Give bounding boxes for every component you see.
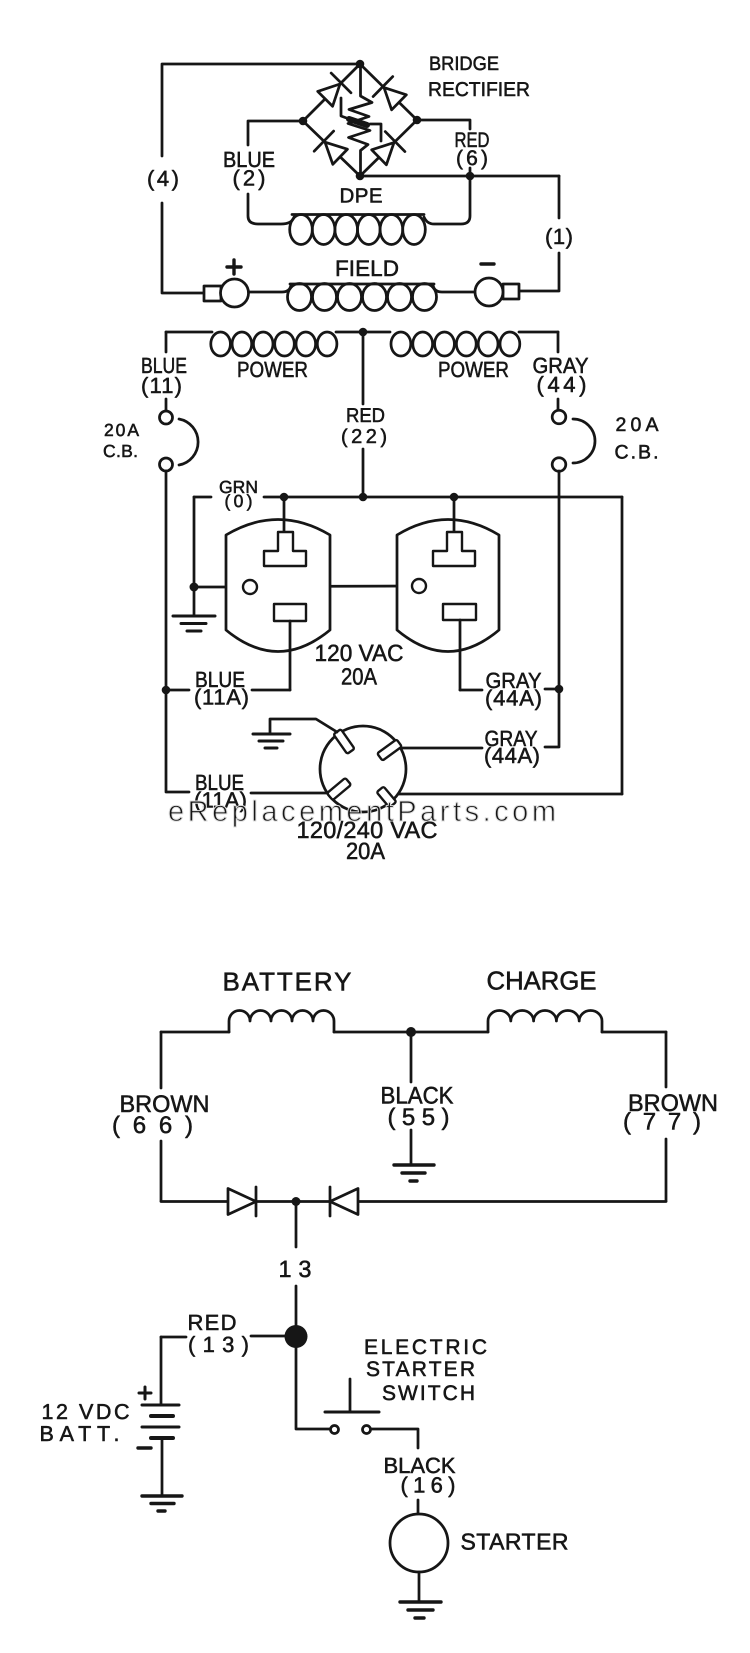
starter switch S1 contacts	[331, 1426, 371, 1434]
wire: right side BROWN(77)	[665, 1032, 668, 1201]
wire: neutral link to receptacle pins	[194, 586, 412, 587]
starter switch plunger	[325, 1379, 379, 1412]
diode D6 (right, cathode left)	[330, 1187, 358, 1216]
label + (field positive)	[227, 260, 241, 274]
node: bridge bottom junction	[356, 172, 365, 181]
label BRIDGE RECTIFIER	[428, 53, 530, 101]
svg-text:12 VDC: 12 VDC	[42, 1400, 130, 1424]
label GRAY (44)	[533, 353, 589, 397]
circuit breaker CB2 (right 20A)	[552, 410, 595, 471]
svg-text:120 VAC: 120 VAC	[315, 640, 404, 666]
wire: bottom rail with diodes	[161, 1200, 666, 1203]
wire: left breaker down to BLUE(11A) node	[165, 471, 168, 690]
receptacle outlet body (left 120VAC)	[226, 520, 330, 652]
wire BLUE(11): power left end down to breaker	[165, 332, 168, 410]
svg-text:STARTER: STARTER	[461, 1529, 569, 1555]
wire: DPE right end riser	[424, 176, 470, 224]
label BROWN (66)	[112, 1091, 210, 1139]
wire (1) riser to FIELD - terminal	[520, 176, 559, 291]
right outlet hot slot	[443, 604, 476, 620]
inductor POWER (left winding)	[166, 332, 390, 356]
node: bus junction left outlet	[280, 493, 289, 502]
svg-text:FIELD: FIELD	[335, 256, 399, 281]
battery BT1 12VDC	[142, 1405, 179, 1438]
node: GRAY(44A) junction	[555, 685, 564, 694]
node: POWER center tap	[359, 328, 368, 337]
ground symbol (receptacle GRN)	[173, 587, 215, 631]
node: BLACK(55) center tap	[406, 1027, 416, 1037]
twist-lock slot (bottom-right)	[377, 786, 397, 807]
label RED (6)	[455, 129, 490, 170]
wire: GRN bracket down to ground	[193, 497, 196, 587]
ground symbol (BLACK 55)	[394, 1165, 434, 1181]
node: bus junction right outlet	[450, 493, 459, 502]
svg-text:20A: 20A	[346, 838, 385, 864]
wire: GRAY(44A) drop to twist-lock	[402, 689, 559, 748]
wire: battery negative to ground	[161, 1438, 164, 1495]
FIELD - terminal	[475, 278, 519, 306]
wire: right breaker down across bus to GRAY(44A) node	[558, 471, 561, 689]
left outlet hot slot	[274, 604, 306, 621]
wire: right outlet hot slot down to GRAY(44A)	[459, 620, 462, 690]
starter motor M1	[390, 1514, 448, 1572]
svg-text:(11A): (11A)	[194, 685, 249, 710]
label - (battery)	[138, 1446, 151, 1449]
node: bridge left AC junction	[299, 117, 308, 126]
svg-text:POWER: POWER	[237, 357, 308, 382]
FIELD + terminal	[204, 279, 249, 307]
resistor (suppressor) inside bridge	[341, 64, 381, 176]
twist-lock slot (bottom-left)	[327, 778, 351, 800]
svg-text:20A: 20A	[341, 664, 377, 690]
wire: (4) riser lower segment to FIELD + terminal	[162, 203, 204, 293]
svg-text:20A: 20A	[104, 420, 139, 440]
label 12 VDC BATT.	[40, 1400, 130, 1446]
svg-text:SWITCH: SWITCH	[382, 1382, 475, 1405]
left outlet neutral pin circle	[243, 580, 257, 594]
wire: bus right drop to 240V receptacle line	[621, 497, 624, 794]
inductor FIELD	[249, 284, 476, 311]
wire: bridge bottom node to (1) riser	[360, 175, 559, 178]
diode D1 (left AC node to + top)	[315, 73, 351, 109]
svg-text:(44A): (44A)	[485, 686, 542, 711]
svg-text:C.B.: C.B.	[615, 442, 659, 464]
node: bridge top junction	[356, 60, 365, 69]
ground symbol (starter)	[400, 1602, 441, 1618]
label BLUE (2)	[223, 147, 275, 191]
diode D4 (bottom - node to right AC node)	[369, 132, 405, 168]
svg-text:(1): (1)	[545, 224, 573, 249]
wire BLUE(2): bridge left node down to DPE coil left end	[248, 121, 303, 224]
node: bus junction red-22	[359, 493, 368, 502]
inductor POWER (right winding)	[391, 332, 558, 356]
svg-text:RED: RED	[346, 405, 385, 427]
label 20A C.B. (right)	[615, 414, 659, 464]
svg-text:DPE: DPE	[340, 185, 383, 208]
wire: left side BROWN(66)	[160, 1032, 163, 1201]
label RED (22)	[341, 405, 387, 448]
svg-text:(4): (4)	[147, 166, 179, 191]
svg-text:(0): (0)	[225, 491, 253, 511]
label BLUE (11)	[141, 353, 187, 398]
svg-text:20A: 20A	[616, 414, 659, 436]
label 120/240 VAC 20A	[297, 817, 438, 864]
bridge rectifier U1 diamond	[303, 64, 417, 176]
ground symbol (twist-lock)	[253, 734, 290, 748]
node: bridge right AC junction	[413, 116, 422, 125]
wire: BLACK(55) center drop	[410, 1032, 413, 1164]
svg-text:(6): (6)	[456, 147, 488, 170]
label 20A C.B. (left)	[103, 420, 139, 461]
receptacle outlet body (right 120VAC)	[397, 520, 499, 652]
inductor DPE	[290, 215, 426, 245]
wire GRAY(44A) horizontal	[460, 689, 555, 690]
twist-lock receptacle 120/240 VAC body	[320, 726, 406, 812]
left outlet ground T-slot	[264, 532, 306, 566]
wire: left outlet hot slot down to BLUE(11A)	[289, 621, 292, 690]
svg-text:(11): (11)	[141, 373, 182, 398]
svg-text:POWER: POWER	[438, 357, 509, 382]
right outlet ground T-slot	[433, 532, 475, 566]
diode D5 (left, cathode right)	[228, 1187, 256, 1216]
node: junction RED(6) on bottom wire	[466, 172, 475, 181]
node: BLUE(11A) junction	[162, 686, 171, 695]
svg-text:BATT.: BATT.	[40, 1422, 120, 1446]
wire: starter to ground	[418, 1572, 421, 1601]
label BLACK (16)	[384, 1453, 456, 1498]
wire RED(13) horizontal to battery	[161, 1336, 285, 1337]
label GRAY (44A) second	[484, 726, 540, 768]
wire GRAY(44): power right end down to breaker	[557, 332, 560, 410]
wire: battery/charge top rail	[161, 1031, 666, 1034]
node: ground junction	[190, 583, 199, 592]
wire RED(6): bridge right node stub to DPE right riser	[417, 120, 470, 176]
diode D2 (right AC node to + top)	[373, 77, 409, 113]
svg-text:CHARGE: CHARGE	[487, 966, 597, 996]
wire: receptacle ground bus GRN	[194, 496, 622, 499]
svg-text:(13): (13)	[188, 1332, 249, 1357]
wire BLUE(11A) horizontal	[166, 689, 290, 692]
wire: bus stem into right outlet ground slot	[453, 497, 456, 532]
label ELECTRIC STARTER SWITCH	[364, 1336, 487, 1405]
svg-text:BATTERY: BATTERY	[223, 967, 352, 997]
label - (field negative)	[481, 262, 494, 265]
right outlet neutral pin circle	[412, 579, 426, 593]
wire: twist-lock right to 240V line	[399, 793, 622, 796]
wire: top-left horizontal from (4) riser to bridge top	[162, 64, 360, 156]
label RED (13)	[188, 1310, 250, 1357]
svg-text:(44A): (44A)	[484, 743, 540, 768]
node: diode junction 13	[292, 1197, 301, 1206]
svg-text:(2): (2)	[233, 166, 266, 191]
node A: big junction RED(13)	[285, 1325, 308, 1348]
svg-text:RECTIFIER: RECTIFIER	[428, 79, 530, 101]
diode D3 (bottom - node to left AC node)	[314, 131, 350, 167]
wire: node 13 drop	[295, 1202, 298, 1327]
twist-lock slot (top-left ground)	[333, 729, 354, 754]
label BLUE (11A) first	[194, 667, 249, 710]
wire: ground lead to twist-lock	[270, 719, 337, 734]
svg-text:STARTER: STARTER	[366, 1358, 475, 1381]
circuit breaker CB1 (left 20A)	[160, 411, 199, 471]
wire: node down to starter switch	[296, 1347, 330, 1429]
twist-lock slot (top-right)	[377, 739, 402, 760]
svg-text:ELECTRIC: ELECTRIC	[364, 1336, 487, 1359]
svg-text:13: 13	[279, 1256, 312, 1282]
label BROWN (77)	[623, 1090, 718, 1136]
label 120 VAC 20A	[315, 640, 404, 690]
label BLUE (11A) second	[194, 770, 247, 813]
wire: BLUE(11A) drop to twist-lock	[166, 690, 327, 793]
label BLACK (55)	[381, 1083, 454, 1132]
inductor BATTERY winding	[229, 1011, 334, 1033]
label GRAY (44A) first	[485, 668, 542, 711]
ground symbol (battery)	[142, 1496, 182, 1511]
svg-text:BRIDGE: BRIDGE	[429, 53, 499, 75]
wire RED(22): center tap down to receptacle bus	[362, 332, 365, 497]
wire: switch to starter BLACK(16)	[371, 1429, 418, 1514]
wire: bus stem into left outlet ground slot	[283, 497, 286, 532]
inductor CHARGE winding	[488, 1011, 602, 1033]
label + (battery)	[139, 1387, 151, 1399]
wire: battery positive riser	[160, 1337, 163, 1404]
svg-text:(22): (22)	[341, 426, 387, 448]
label GRN (0)	[219, 477, 258, 511]
svg-text:C.B.: C.B.	[103, 441, 138, 461]
